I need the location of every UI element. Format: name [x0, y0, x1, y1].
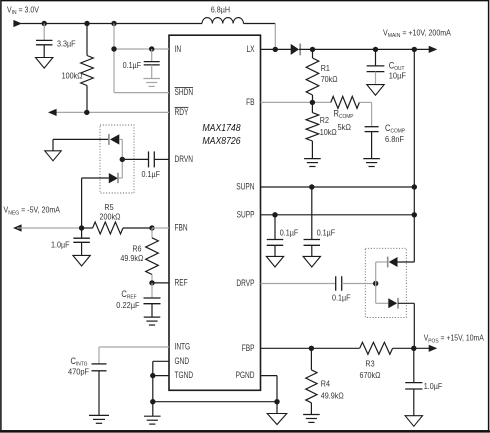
diode D2b (from FBN)	[109, 173, 118, 183]
node dot IN branch	[111, 46, 116, 51]
node dot VIN/IN	[111, 21, 116, 26]
svg-text:MAX1748: MAX1748	[202, 123, 241, 134]
ground below SUPN cap	[303, 256, 320, 267]
ground below CCOMP	[363, 158, 380, 160]
wire REF stub	[152, 282, 169, 284]
capacitor 0.1uF at SUPN	[311, 187, 313, 240]
ground below PGND	[267, 414, 287, 425]
capacitor 1.0uF at VPOS	[413, 348, 415, 382]
wire VMAIN rail	[299, 48, 430, 50]
diode D1 rectifier	[291, 44, 299, 55]
dashed box negative pump	[100, 125, 134, 193]
node dot SUPN/cap	[309, 184, 314, 189]
svg-text:RDY: RDY	[175, 107, 189, 117]
svg-text:6.8nF: 6.8nF	[385, 135, 404, 144]
ground below COUT	[367, 85, 384, 96]
node dot SUPP/cap	[272, 212, 277, 217]
node dot FBP/R4	[309, 346, 314, 351]
wire VNEG to R5	[17, 227, 82, 229]
wire diode to VPOS rail	[413, 303, 415, 348]
svg-text:0.1µF: 0.1µF	[280, 228, 299, 237]
diode D3b (to VPOS)	[376, 302, 389, 304]
capacitor CCOMP 6.8nF	[365, 126, 379, 128]
svg-text:SUPP: SUPP	[237, 209, 255, 219]
svg-text:R5: R5	[104, 203, 113, 212]
wire GND pin	[153, 360, 169, 362]
capacitor 0.1uF at DRVP	[335, 276, 337, 291]
resistor R4 49.9k	[310, 348, 312, 370]
svg-text:R4: R4	[321, 379, 330, 388]
svg-text:FBN: FBN	[175, 223, 188, 233]
ground below TGND	[152, 402, 154, 417]
wire IN net	[113, 24, 115, 93]
svg-text:1.0µF: 1.0µF	[51, 240, 70, 249]
wire VIN rail	[21, 23, 202, 25]
node dot VPOS	[411, 346, 416, 351]
ground below SUPP cap	[266, 256, 283, 267]
resistor 100k	[86, 24, 88, 56]
capacitor C1 3.3uF	[43, 24, 45, 41]
node dot DRVP	[373, 281, 378, 286]
wire INTG net	[99, 346, 169, 348]
wire SUPP	[261, 214, 415, 216]
svg-text:FB: FB	[246, 97, 254, 107]
svg-text:SHDN: SHDN	[175, 87, 194, 97]
node dot IN/C-bypass	[149, 46, 154, 51]
input arrow VIN	[13, 20, 22, 27]
wire PGND	[261, 375, 278, 377]
svg-text:470pF: 470pF	[68, 367, 89, 376]
svg-text:0.1µF: 0.1µF	[142, 170, 161, 179]
capacitor CINTG 470pF	[92, 363, 107, 365]
node dot FBN/R6	[149, 225, 154, 230]
capacitor COUT 10uF	[375, 49, 377, 66]
ground below R2	[304, 158, 321, 160]
svg-text:0.1µF: 0.1µF	[317, 228, 336, 237]
resistor R3 670k	[360, 342, 393, 354]
svg-text:10kΩ: 10kΩ	[320, 128, 337, 137]
capacitor CREF 0.22uF	[151, 283, 153, 298]
svg-text:3.3µF: 3.3µF	[57, 39, 76, 48]
node dot RDY/100k	[84, 110, 89, 115]
node dot VIN/R-100k	[84, 21, 89, 26]
svg-text:IN: IN	[175, 44, 182, 54]
diode D2a (to ground)	[110, 134, 119, 144]
svg-text:10µF: 10µF	[389, 71, 406, 80]
dashed box positive pump	[365, 248, 406, 317]
wire FB net	[261, 101, 331, 103]
wire TGND pin	[153, 375, 169, 377]
svg-text:0.22µF: 0.22µF	[116, 301, 140, 310]
wire LX to diode	[261, 48, 292, 50]
svg-text:LX: LX	[246, 44, 254, 54]
node dot SUPN/rail	[412, 184, 417, 189]
wire TGND down	[152, 376, 154, 402]
svg-text:PGND: PGND	[236, 370, 255, 380]
wire VIN rail right of inductor	[244, 23, 276, 25]
node dot GND/TGND	[150, 373, 155, 378]
node dot LX/L1	[273, 47, 278, 52]
svg-text:49.9kΩ: 49.9kΩ	[321, 391, 344, 400]
wire RDY net	[52, 111, 169, 113]
output arrow RDY	[48, 109, 57, 116]
output arrow VNEG	[13, 224, 22, 231]
ground below CINTG	[89, 414, 109, 416]
wire FBN stub	[152, 227, 169, 229]
svg-text:DRVP: DRVP	[236, 278, 254, 288]
node dot REF	[149, 280, 154, 285]
svg-text:FBP: FBP	[242, 343, 255, 353]
wire RCOMP to CCOMP	[359, 101, 371, 103]
ground at D2a	[45, 151, 62, 161]
node dot VNEG	[79, 225, 84, 230]
node dot VMAIN/COUT	[373, 47, 378, 52]
output arrow VMAIN	[429, 46, 438, 53]
ground below C1	[36, 58, 53, 69]
svg-text:R2: R2	[320, 116, 329, 125]
wire SUPN	[261, 186, 415, 188]
wire DRVP net	[261, 283, 336, 285]
svg-text:0.1µF: 0.1µF	[123, 61, 142, 70]
wire D2a to ground	[53, 138, 108, 140]
inductor L1 6.8uH	[202, 18, 244, 24]
wire DRVP node vertical	[375, 262, 377, 303]
svg-text:49.9kΩ: 49.9kΩ	[120, 254, 143, 263]
node dot VIN/C1	[42, 21, 47, 26]
resistor R6 49.9k	[151, 228, 153, 238]
svg-text:670kΩ: 670kΩ	[360, 371, 381, 380]
wire FBP to R3	[261, 347, 360, 349]
node dot FB	[310, 100, 315, 105]
wire R3 to VPOS	[393, 347, 430, 349]
svg-text:R1: R1	[321, 64, 330, 73]
resistor RCOMP 5k	[331, 96, 360, 108]
svg-text:5kΩ: 5kΩ	[338, 123, 352, 132]
resistor R1 70k	[312, 49, 314, 58]
capacitor 0.1uF at DRVN	[122, 158, 148, 160]
svg-text:GND: GND	[175, 356, 190, 366]
svg-text:100kΩ: 100kΩ	[62, 71, 83, 80]
ground below IN cap	[143, 78, 160, 80]
svg-text:6.8µH: 6.8µH	[211, 5, 230, 14]
node dot ground bus right	[274, 399, 279, 404]
capacitor 0.1uF at SUPP	[274, 215, 276, 240]
ground below VNEG cap	[73, 255, 90, 266]
capacitor 0.1uF at IN	[151, 49, 153, 62]
svg-text:TGND: TGND	[175, 370, 194, 380]
wire ground bus	[153, 401, 277, 403]
capacitor 1.0uF at VNEG	[81, 228, 83, 238]
svg-text:REF: REF	[175, 278, 188, 288]
ground below VPOS cap	[405, 416, 422, 427]
svg-text:MAX8726: MAX8726	[202, 135, 241, 146]
svg-text:200kΩ: 200kΩ	[100, 212, 121, 221]
resistor R5 200k	[93, 222, 123, 234]
op-amp U1 MAX1748/MAX8726 IC body	[169, 35, 261, 390]
wire VMAIN rail down	[413, 49, 415, 262]
ground below CREF	[144, 316, 161, 318]
svg-text:INTG: INTG	[175, 342, 191, 352]
svg-text:R6: R6	[132, 244, 141, 253]
ground below R4	[303, 414, 320, 416]
wire pump node vertical	[121, 139, 123, 178]
node dot ground bus left	[150, 399, 155, 404]
svg-text:R3: R3	[365, 359, 374, 368]
resistor R2 10k	[311, 102, 313, 112]
svg-text:SUPN: SUPN	[236, 182, 254, 192]
svg-text:70kΩ: 70kΩ	[321, 75, 338, 84]
node dot VMAIN/R1	[310, 47, 315, 52]
svg-text:0.1µF: 0.1µF	[332, 293, 351, 302]
wire R5 to FBN	[123, 227, 152, 229]
svg-text:1.0µF: 1.0µF	[424, 382, 443, 391]
output arrow VPOS	[429, 345, 438, 352]
wire D2b to VNEG node	[82, 177, 109, 179]
diode D3a (from VMAIN)	[376, 261, 388, 263]
node dot VMAIN/rail	[412, 47, 417, 52]
node dot DRVN	[120, 157, 125, 162]
node dot SUPP/rail	[412, 212, 417, 217]
svg-text:DRVN: DRVN	[175, 154, 193, 164]
